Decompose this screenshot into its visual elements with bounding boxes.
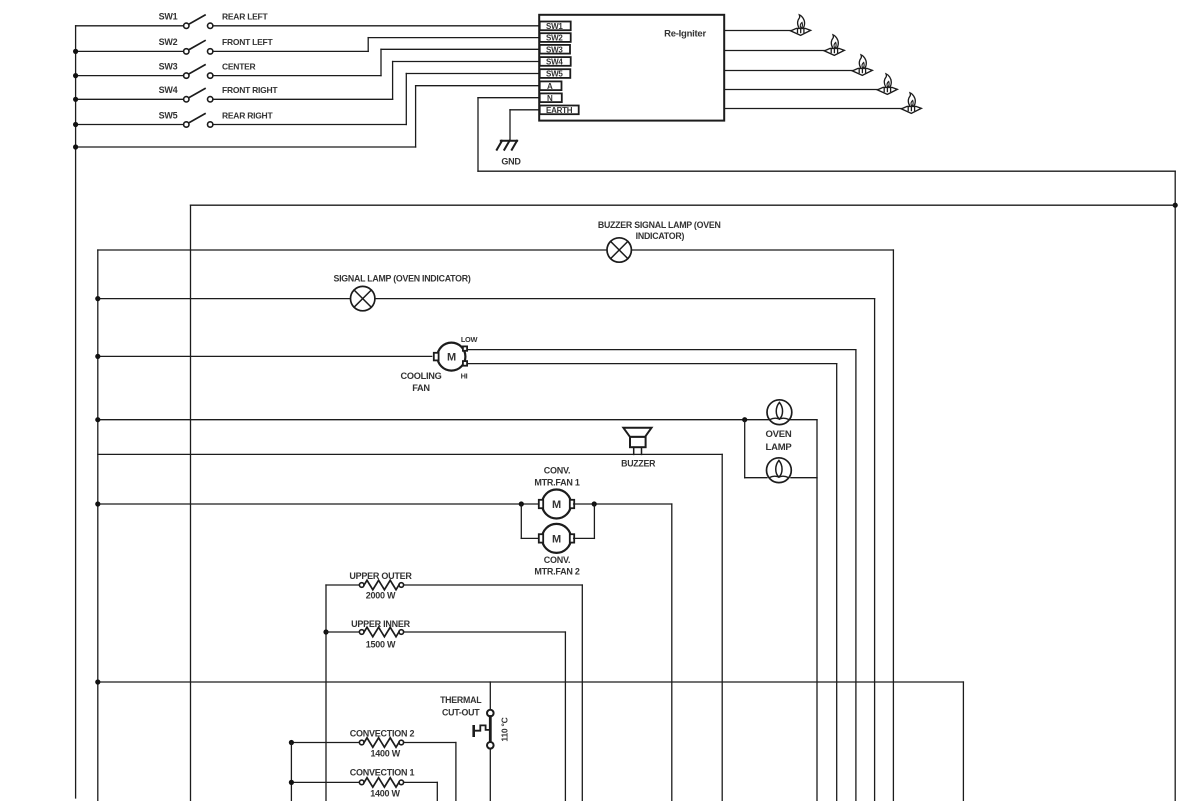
svg-text:CONV.: CONV. [544, 465, 570, 475]
terminal N of U1 [540, 93, 562, 102]
svg-text:CONVECTION 2: CONVECTION 2 [350, 728, 415, 738]
buzzer signal lamp DS1 [607, 238, 631, 262]
wire: neutral drop [477, 98, 479, 172]
wire: drop of signal lamp row [874, 299, 876, 801]
svg-text:SW4: SW4 [546, 58, 563, 67]
wire: lower rail [98, 681, 964, 683]
svg-text:SW2: SW2 [159, 37, 178, 47]
terminal HI of M1 [463, 361, 467, 366]
node: junction right bus / top rail [1173, 203, 1178, 208]
terminal SW4 of U1 [540, 57, 571, 66]
svg-text:BUZZER SIGNAL LAMP (OVEN: BUZZER SIGNAL LAMP (OVEN [598, 220, 721, 230]
switch SW3 [184, 73, 189, 78]
node: junction bus2 / cooling fan row [95, 354, 100, 359]
svg-text:INDICATOR): INDICATOR) [636, 231, 685, 241]
wire: SW5 to terminal [406, 73, 539, 75]
node: junction conv fan left [519, 501, 524, 506]
wire: SW4 to terminal [393, 61, 540, 63]
svg-text:SW4: SW4 [159, 85, 178, 95]
svg-text:Re-Igniter: Re-Igniter [664, 29, 706, 40]
wire: A row (bottom) from left bus [76, 146, 416, 148]
node: junction bus2 / oven lamp row [95, 417, 100, 422]
wire: buzzer row [98, 453, 722, 455]
wire: HI output [467, 363, 837, 365]
svg-text:CENTER: CENTER [222, 61, 256, 71]
node: junction left bus / SW2 row [73, 49, 78, 54]
wire: conv fan row right [574, 503, 672, 505]
terminal SW1 of U1 [540, 22, 571, 31]
wire: oven lamp row [98, 419, 817, 421]
wire: oven lamp loop left [744, 420, 746, 478]
wire: rail A (top) horizontal [191, 204, 1176, 206]
svg-text:EARTH: EARTH [546, 106, 573, 115]
node: junction conv2 left [289, 740, 294, 745]
wire: convection1 row left [291, 781, 359, 783]
wire: oven lamp loop bottom-right [791, 477, 817, 479]
wire: drop of convection1 [436, 782, 438, 801]
wire: drop of convection2 [455, 743, 457, 801]
node: junction left bus / SW5 row [73, 122, 78, 127]
wire: SW1 row to Re-Igniter [213, 25, 539, 27]
signal lamp DS2 [351, 286, 375, 310]
svg-text:MTR.FAN 1: MTR.FAN 1 [534, 477, 579, 487]
wire: conv loop bottom-right [574, 537, 595, 539]
svg-text:SW2: SW2 [546, 34, 563, 43]
thermal cut-out F1 110C [487, 710, 494, 717]
svg-text:1400 W: 1400 W [370, 788, 400, 798]
svg-text:SW3: SW3 [546, 45, 563, 54]
wire: bus 3 vertical (from rail A) [190, 205, 192, 801]
wire: SW1 row left segment [76, 25, 184, 27]
terminal SW3 of U1 [540, 45, 570, 54]
svg-text:SW5: SW5 [546, 70, 563, 79]
node: junction left bus / SW4 row [73, 97, 78, 102]
wire: SW3 step up [380, 49, 382, 75]
svg-text:SW1: SW1 [159, 12, 178, 22]
wire: earth drop to ground [509, 110, 511, 141]
wire: oven lamp loop bottom-left [745, 477, 767, 479]
switch SW2 [184, 49, 189, 54]
svg-text:THERMAL: THERMAL [440, 695, 482, 705]
svg-text:1400 W: 1400 W [371, 748, 401, 758]
wire: conv loop bottom-left [521, 537, 539, 539]
node: junction left bus / A row [73, 144, 78, 149]
svg-text:MTR.FAN 2: MTR.FAN 2 [534, 567, 579, 577]
switch SW4 [184, 97, 189, 102]
wire: igniter output 4 [724, 89, 877, 91]
wire: SW2 step up [367, 38, 369, 52]
conv motor fan M3 [542, 524, 571, 553]
wire: drop of lower rail [962, 682, 964, 801]
wire: cooling fan row [98, 355, 432, 357]
wire: conv loop right [593, 504, 595, 538]
wire: drop at right of oven lamp row [816, 420, 818, 801]
wire: left supply bus (vertical) [75, 26, 77, 798]
wire: SW3 row to step [213, 75, 381, 77]
wire: igniter output 2 [724, 50, 824, 52]
wire: convection2 row left [291, 742, 359, 744]
svg-text:CUT-OUT: CUT-OUT [442, 707, 480, 717]
terminal SW2 of U1 [540, 33, 571, 42]
svg-text:M: M [552, 499, 561, 511]
wire: EARTH terminal to left [510, 109, 539, 111]
svg-text:CONV.: CONV. [544, 555, 570, 565]
svg-text:LAMP: LAMP [766, 442, 793, 453]
wire: upper outer row right [404, 584, 583, 586]
terminal SW5 of U1 [540, 69, 571, 78]
oven lamp DS4 (bottom) [767, 458, 792, 483]
svg-text:A: A [547, 82, 553, 91]
wire: upper inner row right [404, 631, 566, 633]
node: junction bus2 / conv fan row [95, 501, 100, 506]
svg-text:LOW: LOW [461, 335, 478, 344]
node: junction bus2 / signal lamp row [95, 296, 100, 301]
wire: igniter output 3 [724, 70, 852, 72]
wire: drop of upper outer [581, 585, 583, 801]
burner flame B5 [901, 106, 921, 113]
svg-text:GND: GND [501, 157, 521, 167]
heater R4 convection 1 [359, 780, 364, 785]
svg-text:M: M [552, 533, 561, 545]
svg-text:N: N [547, 94, 553, 103]
wire: thermal cutout branch top [489, 682, 491, 710]
wire: convection column [290, 743, 292, 801]
wire: convection1 row right [404, 781, 438, 783]
svg-text:SW1: SW1 [546, 22, 563, 31]
wire: SW2 row left segment [76, 50, 184, 52]
svg-text:2000 W: 2000 W [366, 591, 396, 601]
wire: A row step up [415, 86, 417, 147]
burner flame B4 [877, 87, 897, 94]
node: junction conv fan right [592, 501, 597, 506]
wire: upper inner row left [326, 631, 359, 633]
conv motor fan M2 [542, 490, 571, 519]
svg-text:FRONT LEFT: FRONT LEFT [222, 37, 273, 47]
ground symbol GND [501, 140, 517, 142]
svg-text:BUZZER: BUZZER [621, 459, 656, 469]
wire: SW5 row to step [213, 124, 406, 126]
wire: SW5 row left segment [76, 124, 184, 126]
burner flame B1 [791, 28, 811, 35]
wire: SW4 row to step [213, 98, 393, 100]
svg-text:SW3: SW3 [159, 61, 178, 71]
wire: SW3 row left segment [76, 75, 184, 77]
cooling fan motor M1 [437, 343, 465, 371]
node: junction upper inner [323, 629, 328, 634]
heater R2 upper inner [359, 630, 364, 635]
heater R3 convection 2 [359, 740, 364, 745]
svg-text:UPPER INNER: UPPER INNER [351, 619, 411, 629]
svg-text:SIGNAL LAMP (OVEN INDICATOR): SIGNAL LAMP (OVEN INDICATOR) [333, 273, 470, 283]
wire: LOW output [467, 349, 856, 351]
wire: convection2 row right [404, 742, 456, 744]
wire: upper outer row left [326, 584, 359, 586]
svg-text:OVEN: OVEN [766, 429, 792, 440]
svg-text:SW5: SW5 [159, 110, 178, 120]
svg-text:CONVECTION 1: CONVECTION 1 [350, 767, 415, 777]
heater R1 upper outer [359, 583, 364, 588]
svg-text:110 °C: 110 °C [500, 717, 510, 741]
wire: N terminal to left [478, 97, 539, 99]
wire: bus 2 vertical [97, 250, 99, 801]
burner flame B2 [824, 48, 844, 55]
wire: rail B horizontal (buzzer signal lamp row) [98, 249, 894, 251]
wire: drop of LOW [855, 350, 857, 801]
terminal EARTH of U1 [540, 106, 579, 115]
svg-text:M: M [447, 352, 456, 364]
svg-text:HI: HI [461, 371, 468, 380]
wire: drop of conv fan row [671, 504, 673, 801]
wire: SW2 to terminal [368, 37, 539, 39]
switch SW5 [184, 122, 189, 127]
svg-text:1500 W: 1500 W [366, 640, 396, 650]
re-igniter module U1 (box) [539, 15, 724, 121]
svg-text:COOLING: COOLING [400, 371, 441, 381]
wire: SW2 row to step [213, 50, 368, 52]
burner flame B3 [852, 68, 872, 75]
wire: drop of rail B at right [892, 250, 894, 801]
wire: A row to terminal A [416, 85, 540, 87]
wire: SW4 row left segment [76, 98, 184, 100]
wire: signal lamp row [98, 298, 875, 300]
wire: right neutral bus (vertical) [1174, 171, 1176, 801]
node: junction conv1 left [289, 780, 294, 785]
wire: SW5 step up [405, 74, 407, 125]
wire: upper outer bus down [325, 585, 327, 801]
switch SW1 [184, 23, 189, 28]
svg-text:REAR LEFT: REAR LEFT [222, 12, 269, 22]
wire: drop of buzzer row [721, 454, 723, 801]
terminal LOW of M1 [463, 346, 467, 350]
wire: conv fan row [98, 503, 540, 505]
wire: neutral rail to right edge [478, 170, 1175, 172]
node: junction bus2 / lower rail [95, 679, 100, 684]
wire: SW3 to terminal [381, 48, 539, 50]
wire: igniter output 5 [724, 108, 901, 110]
wire: drop of HI [836, 364, 838, 801]
wire: igniter output 1 [724, 30, 791, 32]
node: junction left bus / SW3 row [73, 73, 78, 78]
oven lamp DS3 (top) [767, 400, 792, 425]
wire: SW4 step up [392, 62, 394, 100]
terminal A of U1 [540, 81, 562, 90]
node: junction oven lamp branch [742, 417, 747, 422]
wire: drop of upper inner [564, 632, 566, 801]
svg-text:FAN: FAN [412, 383, 430, 393]
svg-text:REAR RIGHT: REAR RIGHT [222, 110, 273, 120]
svg-text:UPPER OUTER: UPPER OUTER [349, 571, 412, 581]
wire: conv loop left [520, 504, 522, 538]
buzzer LS1 [623, 428, 651, 437]
svg-text:FRONT RIGHT: FRONT RIGHT [222, 85, 278, 95]
